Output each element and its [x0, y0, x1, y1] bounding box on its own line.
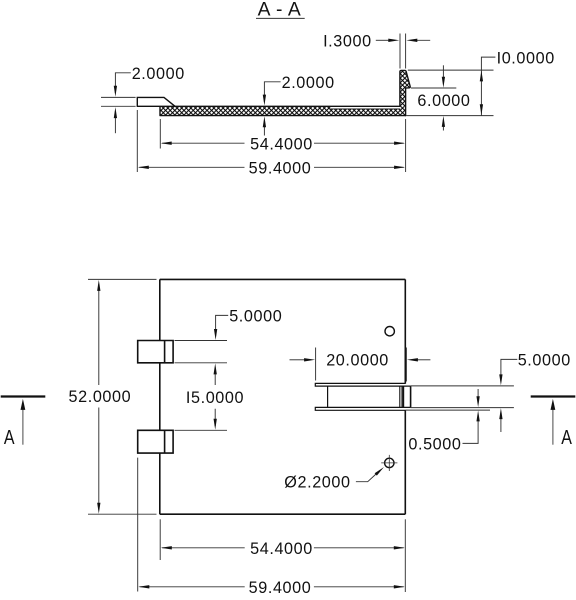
section: wall outline: [400, 70, 410, 115]
dimension 54.4000 (section): [160, 119, 405, 172]
dimension 2.0000 (left lip thickness): [101, 73, 136, 133]
plan: small circle: [385, 327, 394, 336]
section: right wall hatched body: [400, 70, 410, 106]
section: plate outline: [137, 70, 410, 115]
section: plate hatched body: [160, 106, 406, 115]
plan: hole circle: [385, 458, 394, 467]
section marker right: [531, 397, 576, 449]
dimension 54.4000 (plan): [160, 519, 405, 592]
svg-text:I.3000: I.3000: [323, 33, 372, 51]
svg-text:54.4000: 54.4000: [250, 540, 313, 558]
svg-text:5.0000: 5.0000: [229, 308, 282, 326]
plan: tab 2: [138, 430, 173, 453]
svg-text:2.0000: 2.0000: [282, 74, 335, 92]
hole label Ø2.2000 with leader: [356, 474, 376, 482]
svg-text:20.0000: 20.0000: [326, 351, 389, 369]
section: tab lip outline: [137, 97, 175, 106]
dimension 10.0000 (wall height): [406, 57, 495, 116]
dimension 5.0000 (slot ledge, right): [405, 359, 517, 432]
dimension 20.0000 (slot width): [290, 348, 431, 382]
plan: right slot ledges: [315, 383, 410, 386]
dimension 1.3000 (wall thickness): [376, 34, 430, 69]
svg-text:A: A: [4, 425, 15, 448]
svg-text:54.4000: 54.4000: [250, 136, 313, 154]
plan: square outline: [138, 279, 411, 514]
svg-text:2.0000: 2.0000: [132, 65, 185, 83]
dimension 52.0000 (plan height): [88, 279, 157, 514]
svg-text:A - A: A - A: [258, 0, 302, 21]
title A - A: [256, 0, 305, 21]
section marker left: [1, 397, 46, 449]
svg-text:I0.0000: I0.0000: [497, 49, 555, 67]
dimension 2.0000 (plate thickness, middle): [264, 82, 280, 136]
section: recess floor line: [331, 108, 400, 110]
dimension 5.0000 (tab width): [175, 315, 229, 430]
dimension 59.4000 (plan): [138, 458, 404, 592]
svg-text:Ø2.2000: Ø2.2000: [284, 474, 350, 492]
svg-text:6.0000: 6.0000: [417, 92, 470, 110]
dimension 15.0000 (tab spacing): [214, 368, 216, 427]
svg-text:59.4000: 59.4000: [249, 160, 312, 178]
dimension 0.5000: [463, 389, 479, 443]
svg-text:59.4000: 59.4000: [249, 579, 312, 597]
svg-text:I5.0000: I5.0000: [186, 389, 244, 407]
svg-text:52.0000: 52.0000: [69, 388, 132, 406]
svg-text:5.0000: 5.0000: [518, 352, 571, 370]
plan: tab 1: [138, 341, 173, 363]
dimension 6.0000 (step height): [411, 65, 456, 130]
svg-text:0.5000: 0.5000: [408, 436, 461, 454]
svg-text:A: A: [561, 425, 572, 448]
plan: hole crosshair: [381, 455, 397, 471]
dimension 59.4000 (section): [137, 110, 404, 172]
